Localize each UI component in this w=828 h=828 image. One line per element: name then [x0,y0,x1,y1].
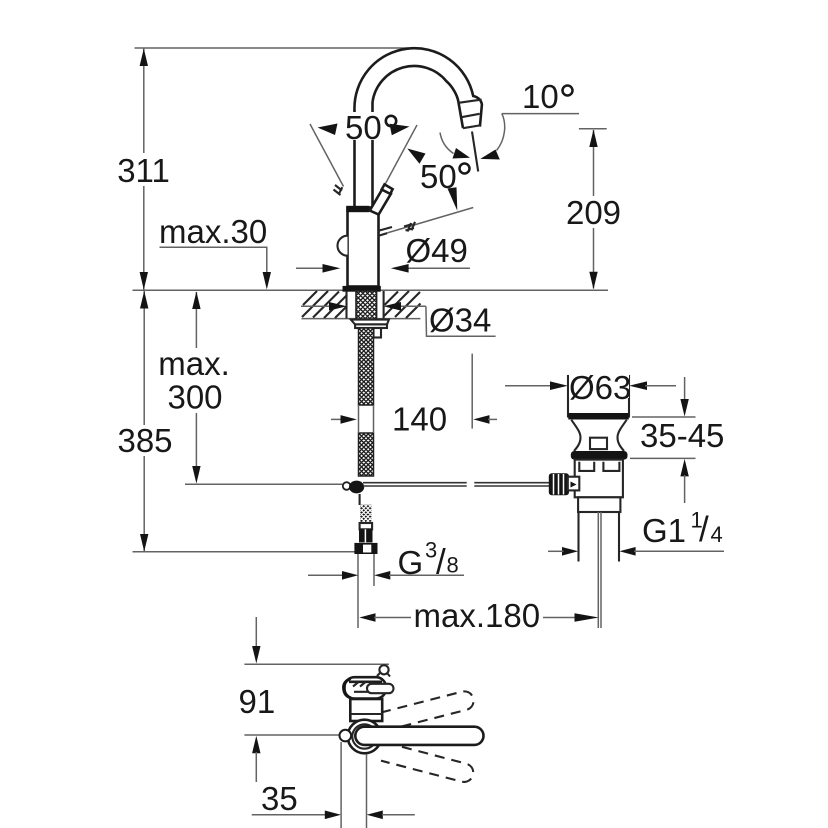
handle front bulge [344,679,351,698]
threaded shank through counter [290,291,435,320]
outlet axis tick [472,132,478,172]
left 50 label knockout [344,112,400,140]
dim G38 line right [374,571,390,580]
phantom handle left (line A) [310,124,344,187]
rod connector [568,477,580,491]
threaded rod lower segment [359,380,374,501]
10-deg arc with arrow (left side) [440,133,454,154]
phantom handle right (diagonal) [384,208,474,235]
svg-text:35: 35 [261,780,298,817]
max.300 bottom extension / pop-up rod reference line [185,483,343,485]
svg-text:Ø34: Ø34 [429,302,491,339]
spout inner contour [373,66,464,128]
solid spout tube (top view) [355,727,483,745]
valve body notch left [579,462,594,471]
body left bump [338,236,348,256]
dim 35 extension line left [340,742,342,828]
dim G38 line left [308,574,345,576]
drain flange [568,376,629,417]
dim 140 line left [331,418,343,420]
left 50 arc arrow left [318,124,338,136]
dim 140 right arrow [473,415,489,424]
10-deg label shelf [502,113,579,115]
dim G1 1/4 line [619,547,635,556]
dim diam49 line left [296,267,324,269]
phantom spout upper [381,691,474,730]
svg-text:8: 8 [447,553,459,578]
drain boss [590,438,607,449]
outlet bottom edge [463,125,480,128]
hose black block [359,529,373,542]
phantom handle left tip mark [334,185,343,195]
svg-text:G1: G1 [642,512,686,549]
drain lower nut [578,497,620,512]
svg-text:/: / [699,510,709,549]
dim max.300 bottom arrow [192,466,200,484]
dim 91 upper extension line [244,663,389,665]
hose guide tab [374,328,382,338]
countertop hatching right [384,291,421,318]
G38 nut [354,543,377,554]
dim 35 line [252,814,325,816]
hose knurl block [360,480,371,542]
dim 91 lower extension line [244,734,343,736]
drain neck [571,420,626,451]
hub outer circle [348,720,382,754]
drain valve body [575,460,623,498]
dim 35-45 label [640,417,724,454]
hole edge lines [345,291,347,318]
phantom handle right tip mark [404,222,415,232]
tailpipe bore lines [597,512,599,628]
spout outer contour [354,48,481,126]
countertop bottom line [302,318,421,320]
rod outline gap segment [358,405,360,433]
drain tailpipe right [618,512,620,562]
hose neck [359,494,361,505]
handle tip curl [379,665,388,674]
svg-text:10: 10 [522,78,559,115]
svg-text:209: 209 [566,194,621,231]
dim 209 bottom arrow [589,272,597,290]
dim 209 vertical line [593,130,595,196]
pipe below nut right line [373,554,375,586]
svg-text:G: G [398,544,424,581]
handle inner line [354,691,378,693]
drain seal ring [571,451,628,460]
dim diam63 label [569,369,631,406]
body base plate [343,286,381,292]
dim 91 upper arrow [255,617,257,647]
dim 385 top arrow [140,291,148,309]
right 50 leader arrow to phantom [448,187,458,210]
temp limiter button [340,730,352,742]
10-deg arc with arrow (right side) [497,114,505,151]
dim 35-45 vertical line [684,377,686,400]
hub inner circle [352,724,376,748]
valve body notch right [603,462,619,471]
dim diam49 line right [408,267,470,269]
dim diam63 line right [629,381,647,390]
svg-text:Ø49: Ø49 [406,232,468,269]
dim 311 vertical line [143,48,145,153]
drain tailpipe left [577,512,579,562]
hose white band [360,523,373,529]
dim diam34 line right [399,305,426,307]
threaded rod upper segment [359,249,374,422]
dim max.30 underline [160,246,268,248]
svg-text:91: 91 [239,683,276,720]
dim max.30 leader [266,247,268,274]
svg-text:385: 385 [117,422,172,459]
dim 209 top arrow [589,130,597,148]
dim max.300 top arrow [192,292,200,310]
svg-text:Ø63: Ø63 [569,369,631,406]
dim 35-45 extension line top [632,416,696,418]
dim diam34 line left [301,305,331,307]
rod eye [343,482,351,490]
rod knob [549,473,569,495]
aerator band line 1 [459,100,482,103]
left 50 arc arrow right [390,124,410,135]
svg-text:max.180: max.180 [414,597,541,634]
countertop hatching left [302,291,347,318]
dim max.30 arrow [263,272,271,290]
svg-text:140: 140 [392,401,447,438]
svg-text:max.: max. [158,345,230,382]
phantom spout lower [381,743,473,782]
dim 385 bottom extension line [133,551,356,553]
rod ball joint [349,481,364,494]
top view body column [350,699,382,721]
pipe below nut left line / centerline [357,554,359,628]
handle body [345,677,387,698]
dim diam34 leader corner [426,306,496,336]
dim 140 extension line [471,354,473,429]
svg-text:50: 50 [345,109,382,146]
handle tip cap [382,184,393,194]
handle lever [370,189,391,215]
body outline [348,208,379,287]
rod horizontal segment 1 [363,482,467,484]
spout tube left line [353,110,356,208]
dim 385 bottom arrow [140,534,148,552]
handle top band [349,680,382,683]
dim 311 bottom arrow [140,272,148,290]
svg-text:/: / [436,543,446,582]
svg-text:311: 311 [117,152,170,189]
dim max180 line [359,613,375,622]
handle lever rod [367,684,394,693]
dim 311 top arrow [140,49,148,67]
svg-text:max.30: max.30 [159,213,267,250]
washer below counter [351,320,389,325]
dim 209 top extension line [579,128,607,130]
dim 35 extension line right [366,754,368,828]
svg-text:300: 300 [167,379,222,416]
svg-text:4: 4 [711,522,723,547]
dim 385 vertical line [143,291,145,425]
body top dark band [346,206,369,212]
right 50 arrow at handle line [407,149,425,164]
dim 35-45 extension line bottom [630,457,696,459]
handle centerline extended (line B) [374,125,417,205]
body spout joint marks [378,227,393,236]
dim diam63 line left [505,385,552,387]
dim max.300 vertical line [195,292,197,348]
rod horizontal segment 2 [474,482,549,484]
top extension line (spout height reference) [135,47,409,49]
dim 91 lower arrow [252,736,260,754]
aerator band line 2 [461,114,479,117]
svg-text:35-45: 35-45 [640,417,724,454]
handle inner marks [353,682,373,687]
countertop top line [133,289,609,291]
spout tube right line [371,102,374,208]
mounting nut [355,324,387,328]
drain flange bottom thick bar [568,413,629,420]
